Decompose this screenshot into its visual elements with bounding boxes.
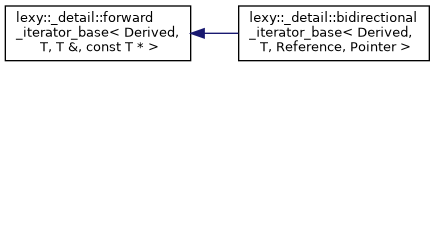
- label text: _iterator_base&lt; Derived,: [16, 26, 178, 40]
- label text: _iterator_base&lt; Derived, (right box): [249, 26, 411, 40]
- label text: lexy::_detail::bidirectional: [251, 11, 416, 25]
- node box: lexy::_detail::forward_iterator_base (base class): [5, 6, 190, 61]
- label text: T, Reference, Pointer &gt;: [260, 40, 410, 52]
- inheritance arrowhead pointing at base class: [191, 29, 204, 38]
- inheritance edge shaft: [205, 32, 239, 34]
- label text: lexy::_detail::forward: [17, 11, 152, 25]
- label text: T, T &amp;, const T * &gt;: [40, 42, 158, 52]
- node box: lexy::_detail::bidirectional_iterator_base (derived class): [239, 6, 430, 61]
